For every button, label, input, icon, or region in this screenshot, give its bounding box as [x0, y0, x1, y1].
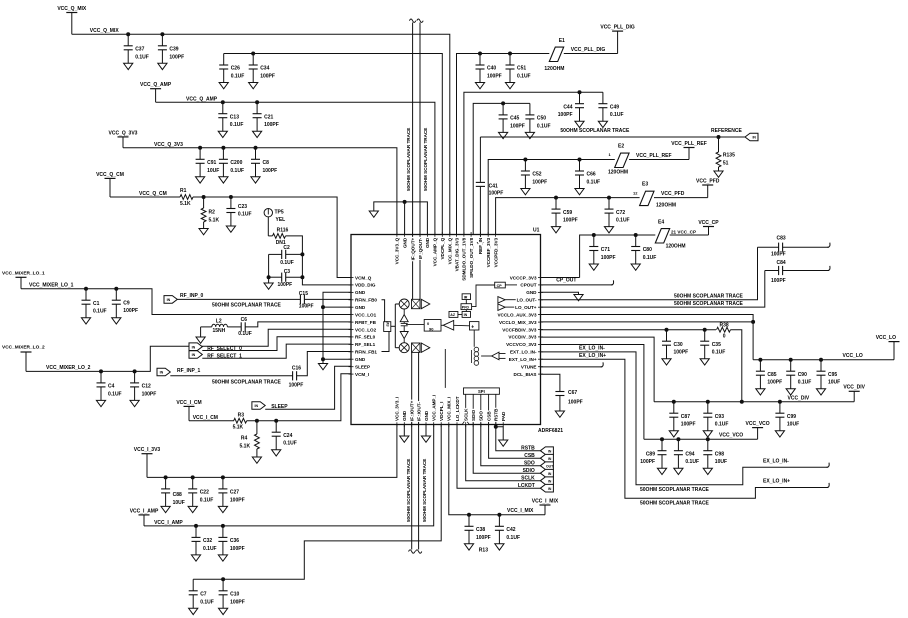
- svg-text:C32: C32: [203, 538, 212, 544]
- svg-text:VCM_I: VCM_I: [355, 372, 369, 377]
- amplifier EXT_LO buffer: [492, 352, 499, 360]
- svg-text:120OHM: 120OHM: [666, 243, 686, 249]
- svg-text:0.1UF: 0.1UF: [537, 123, 551, 129]
- box IR: [462, 294, 470, 300]
- svg-text:0.1UF: 0.1UF: [685, 459, 699, 465]
- wire top GND pins jog to ground: [404, 202, 406, 235]
- svg-text:100PF: 100PF: [510, 123, 525, 129]
- wire TP5 to R116: [267, 217, 269, 236]
- input port RF_SELECT_0: [189, 343, 202, 351]
- capacitor C1: [84, 287, 88, 291]
- svg-text:10UF: 10UF: [715, 459, 727, 465]
- svg-text:C34: C34: [260, 66, 269, 72]
- svg-text:C200: C200: [230, 160, 242, 166]
- amplifier LO buffer: [443, 321, 454, 331]
- capacitor C85: [758, 358, 762, 362]
- svg-text:0.1UF: 0.1UF: [203, 546, 217, 552]
- svg-text:IN: IN: [160, 371, 164, 375]
- svg-text:100PF: 100PF: [558, 112, 573, 118]
- svg-text:50OHM SCOPLANAR TRACE: 50OHM SCOPLANAR TRACE: [674, 301, 744, 307]
- svg-text:10UF: 10UF: [173, 500, 185, 506]
- svg-text:C35: C35: [712, 342, 721, 348]
- svg-text:VCC_DIV: VCC_DIV: [788, 396, 810, 402]
- svg-text:VDD_DIG: VDD_DIG: [355, 283, 376, 288]
- svg-text:100PF: 100PF: [674, 350, 689, 356]
- svg-text:VCC_PFD: VCC_PFD: [661, 191, 685, 197]
- svg-text:0.1UF: 0.1UF: [108, 391, 122, 397]
- svg-text:C24: C24: [283, 433, 292, 439]
- box AZ: [449, 312, 458, 318]
- svg-text:0: 0: [723, 333, 726, 339]
- capacitor C41 (series, vertical): [476, 181, 485, 183]
- resistor R2 pulldown: [202, 195, 206, 199]
- LO phase chain between mixers: [403, 309, 405, 315]
- svg-text:VCC_I_MIX: VCC_I_MIX: [507, 508, 534, 514]
- svg-text:5.1K: 5.1K: [209, 217, 220, 223]
- svg-text:VCC_MIXER_LO_2: VCC_MIXER_LO_2: [2, 344, 45, 350]
- svg-text:LO_LCKDT: LO_LCKDT: [455, 396, 460, 421]
- power flag VCC_I_3V3: [142, 453, 153, 455]
- svg-text:CP_OUT: CP_OUT: [556, 277, 576, 283]
- svg-text:50OHM SCOPLANAR TRACE: 50OHM SCOPLANAR TRACE: [423, 128, 428, 191]
- input port RF_INP_1: [157, 368, 170, 376]
- svg-text:E2: E2: [618, 143, 624, 149]
- svg-text:0.1UF: 0.1UF: [238, 331, 252, 337]
- svg-text:120OHM: 120OHM: [656, 203, 676, 209]
- wire CP to CPOUT pin: [505, 284, 517, 286]
- capacitor C35: [703, 328, 707, 332]
- wire VCC_I_CM flag stem: [188, 406, 190, 420]
- ground for C3: [264, 283, 273, 289]
- wire GND pin stub y307: [323, 306, 351, 308]
- ground for left GND pins: [318, 364, 327, 370]
- svg-text:SPI: SPI: [478, 389, 485, 394]
- svg-text:50OHM SCOPLANAR TRACE: 50OHM SCOPLANAR TRACE: [560, 128, 630, 134]
- svg-text:C38: C38: [476, 527, 485, 533]
- resistor R1: [180, 195, 193, 200]
- capacitor C71: [592, 233, 596, 237]
- svg-text:EX_LO_IN-: EX_LO_IN-: [763, 459, 789, 465]
- svg-text:C39: C39: [169, 47, 178, 53]
- svg-text:VCC_MIXER_LO_1: VCC_MIXER_LO_1: [29, 283, 74, 289]
- wire PFD to CP: [472, 285, 495, 307]
- svg-text:100PF: 100PF: [230, 599, 245, 605]
- wire PAD to ground: [496, 427, 503, 440]
- svg-text:VCC_PLL_DIG: VCC_PLL_DIG: [600, 25, 635, 31]
- wire C2 left leg down to C3/ground: [268, 254, 270, 283]
- svg-text:0.1UF: 0.1UF: [616, 218, 630, 224]
- wire RFIN_FB0 to SW: [382, 300, 385, 322]
- svg-text:SCLK: SCLK: [464, 408, 469, 421]
- resistor R135: [718, 137, 720, 152]
- svg-text:10UF: 10UF: [828, 380, 840, 386]
- svg-text:C50: C50: [537, 116, 546, 122]
- svg-text:VCCDIV_3V3: VCCDIV_3V3: [508, 335, 537, 340]
- svg-text:50OHM SCOPLANAR TRACE: 50OHM SCOPLANAR TRACE: [212, 302, 282, 308]
- svg-text:LO_OUT-: LO_OUT-: [517, 298, 537, 303]
- svg-text:YEL: YEL: [276, 217, 286, 223]
- svg-text:IN: IN: [752, 136, 756, 140]
- svg-text:VCCLO_AUX_3V3: VCCLO_AUX_3V3: [497, 312, 537, 317]
- capacitor C22: [191, 475, 195, 479]
- svg-text:0.1UF: 0.1UF: [283, 441, 297, 447]
- wire R1 to VCM_Q pin: [193, 197, 351, 278]
- svg-text:VCC_MIX_Q: VCC_MIX_Q: [448, 237, 453, 264]
- capacitor C93: [706, 400, 710, 404]
- svg-text:SDIO: SDIO: [471, 409, 476, 421]
- svg-text:C49: C49: [610, 104, 619, 110]
- wire EXT_LO_IN+ trace: [541, 359, 829, 498]
- svg-text:VCC_Q_MIX: VCC_Q_MIX: [90, 28, 120, 34]
- capacitor C84 (series): [765, 270, 779, 272]
- capacitor C26: [223, 54, 225, 66]
- svg-text:C9: C9: [123, 300, 130, 306]
- capacitor C27: [221, 475, 225, 479]
- svg-text:100PF: 100PF: [264, 122, 279, 128]
- svg-text:C13: C13: [230, 114, 239, 120]
- wire IF_QOUT- 50ohm trace: [419, 23, 421, 300]
- wire RSTB to pentagon: [496, 425, 541, 451]
- svg-text:SPILDO_OUT_1V8: SPILDO_OUT_1V8: [469, 237, 474, 278]
- svg-text:CPOUT: CPOUT: [520, 283, 536, 288]
- svg-text:100PF: 100PF: [230, 497, 245, 503]
- capacitor C99: [778, 400, 782, 404]
- capacitor C90: [789, 358, 793, 362]
- svg-text:GND: GND: [424, 410, 429, 421]
- svg-text:100PF: 100PF: [771, 251, 786, 257]
- wire VCC_I_3V3 bus to VCC_3V3_I pin: [147, 425, 397, 478]
- capacitor C44: [578, 90, 582, 94]
- svg-text:VCCREF_3V3: VCCREF_3V3: [486, 237, 491, 267]
- svg-text:R2: R2: [209, 210, 216, 216]
- svg-text:SDMLDO_OUT_1V8: SDMLDO_OUT_1V8: [462, 237, 467, 280]
- svg-text:10UF: 10UF: [207, 168, 219, 174]
- svg-text:IF_QOUT+: IF_QOUT+: [410, 237, 415, 260]
- svg-text:C67: C67: [568, 390, 577, 396]
- svg-text:100PF: 100PF: [489, 191, 504, 197]
- svg-text:IN: IN: [548, 479, 552, 483]
- svg-text:AZ: AZ: [450, 313, 456, 317]
- ground for PAD: [499, 440, 508, 446]
- capacitor C21: [255, 100, 259, 104]
- svg-text:VCC_MIX_I: VCC_MIX_I: [447, 397, 452, 421]
- VCO varactor stack: [473, 330, 475, 347]
- svg-text:C88: C88: [173, 492, 182, 498]
- wire RF_SELECT_1 to RF_SEL1 pin: [202, 344, 351, 358]
- wire VCC_MIXER_LO_2 bus to VCC_LO2 pin: [26, 329, 351, 371]
- wire VCCFBDIV_3V3 to R38: [541, 329, 717, 331]
- svg-text:RFIN_FB1: RFIN_FB1: [355, 350, 377, 355]
- resistor R116 (DN1): [268, 235, 272, 237]
- svg-text:VCC_MIXER_LO_2: VCC_MIXER_LO_2: [46, 365, 91, 371]
- wire quad section to SPI: [444, 349, 446, 388]
- svg-text:C85: C85: [767, 372, 776, 378]
- svg-text:5.1K: 5.1K: [240, 443, 251, 449]
- svg-text:0.1UF: 0.1UF: [715, 422, 729, 428]
- ground for top GND pins: [369, 211, 378, 217]
- wire VCCPFD_3V3 / E3 bus: [496, 198, 640, 235]
- capacitor C4: [99, 369, 103, 373]
- svg-text:50OHM SCOPLANAR TRACE: 50OHM SCOPLANAR TRACE: [640, 487, 710, 493]
- wire VCCVCO_3V3 to VCC_VCO bus: [541, 345, 644, 440]
- svg-text:EX_LO_IN-: EX_LO_IN-: [579, 345, 605, 351]
- power flag VCC_Q_3V3: [118, 136, 129, 138]
- svg-text:C3: C3: [284, 269, 291, 275]
- svg-text:C98: C98: [715, 451, 724, 457]
- svg-text:100PF: 100PF: [767, 380, 782, 386]
- svg-text:0.1UF: 0.1UF: [200, 599, 214, 605]
- svg-text:C87: C87: [681, 414, 690, 420]
- capacitor C42: [497, 513, 501, 517]
- capacitor C12: [133, 369, 137, 373]
- svg-text:C91: C91: [207, 160, 216, 166]
- svg-text:EXT_LO_IN+: EXT_LO_IN+: [509, 357, 537, 362]
- svg-text:VTUNE: VTUNE: [521, 365, 537, 370]
- capacitor C94: [676, 437, 680, 441]
- svg-text:C37: C37: [135, 47, 144, 53]
- svg-text:0.1UF: 0.1UF: [280, 260, 294, 266]
- svg-text:0.1UF: 0.1UF: [230, 168, 244, 174]
- svg-text:50OHM SCOPLANAR TRACE: 50OHM SCOPLANAR TRACE: [640, 501, 710, 507]
- svg-text:100PF: 100PF: [476, 535, 491, 541]
- svg-text:VCC_PLL_DIG: VCC_PLL_DIG: [571, 47, 606, 53]
- svg-text:120OHM: 120OHM: [608, 169, 628, 175]
- filter box I: [412, 343, 421, 352]
- wire E1 to VCC_PLL_DIG flag: [564, 53, 618, 55]
- svg-text:100PF: 100PF: [263, 168, 278, 174]
- svg-text:C80: C80: [643, 247, 652, 253]
- power flag VCC_I_AMP: [139, 514, 150, 516]
- svg-text:IN: IN: [548, 472, 552, 476]
- svg-text:C41: C41: [489, 183, 498, 189]
- power flag VCC_Q_CM: [105, 177, 116, 179]
- amplifier LO_OUT+ buffer: [498, 304, 505, 310]
- svg-text:C22: C22: [200, 490, 209, 496]
- capacitor C24: [274, 419, 278, 423]
- svg-text:VCC_3V3_I: VCC_3V3_I: [395, 397, 400, 421]
- wire IF_IOUT- 50ohm trace: [418, 353, 420, 550]
- input port RF_SELECT_1: [189, 351, 202, 359]
- svg-text:VCC_Q_AMP: VCC_Q_AMP: [186, 96, 218, 102]
- wire VCC_Q_CM bus to R1: [110, 196, 180, 198]
- capacitor C8: [254, 146, 258, 150]
- capacitor C36: [221, 524, 225, 528]
- wire E2 to VCC_PLL_REF flag: [629, 159, 689, 161]
- svg-text:GND: GND: [402, 410, 407, 421]
- svg-text:C2: C2: [283, 245, 290, 251]
- capacitor C39: [160, 32, 164, 36]
- power flag VCC_PLL_REF: [684, 147, 695, 149]
- wire RF_INP_0 to C15: [177, 298, 300, 300]
- svg-text:C1: C1: [93, 301, 100, 307]
- capacitor C34: [251, 52, 255, 56]
- svg-text:100PF: 100PF: [142, 391, 157, 397]
- svg-text:100PF: 100PF: [532, 180, 547, 186]
- svg-text:VCC_I_3V3: VCC_I_3V3: [134, 447, 161, 453]
- svg-text:IN: IN: [192, 353, 196, 357]
- svg-text:0.1UF: 0.1UF: [643, 255, 657, 261]
- svg-text:C99: C99: [787, 414, 796, 420]
- svg-text:CSB: CSB: [486, 411, 491, 421]
- svg-text:0.1UF: 0.1UF: [712, 350, 726, 356]
- svg-text:C71: C71: [601, 247, 610, 253]
- wire VCCLO_MIX_3V3 to VCC_LO bus: [541, 322, 754, 360]
- svg-text:0.1UF: 0.1UF: [587, 180, 601, 186]
- svg-text:C42: C42: [506, 527, 515, 533]
- resistor R3: [234, 418, 247, 423]
- filter box Q: [412, 299, 421, 308]
- svg-text:VCCFBDIV_3V3: VCCFBDIV_3V3: [502, 327, 537, 332]
- svg-text:5.1K: 5.1K: [180, 201, 191, 207]
- svg-text:0.1UF: 0.1UF: [135, 54, 149, 60]
- svg-text:VCC_I_AMP: VCC_I_AMP: [154, 520, 183, 526]
- wire VCC_I_3V3 flag stem: [146, 454, 148, 478]
- wire C26/C34 bus (VDCPL_Q): [224, 54, 443, 235]
- wire C6 to RFBT_FB pin: [245, 322, 351, 327]
- svg-text:VCC_Q_3V3: VCC_Q_3V3: [109, 130, 138, 136]
- wire CSB to pentagon: [489, 425, 541, 459]
- svg-text:IF_QOUT-: IF_QOUT-: [418, 237, 423, 259]
- amplifier I: [421, 343, 430, 352]
- svg-text:C51: C51: [517, 66, 526, 72]
- wire VCC_MIXER_LO_1 flag stem: [20, 277, 22, 288]
- svg-text:VCM_Q: VCM_Q: [355, 275, 372, 280]
- svg-text:100PF: 100PF: [771, 278, 786, 284]
- wire VBAT_DIG_3V3 / E1 bus: [457, 54, 550, 235]
- wire SPILDO_OUT_1V8 bus: [473, 103, 530, 234]
- divider box N: [470, 322, 479, 330]
- capacitor C45: [501, 101, 505, 105]
- svg-text:VCC_VCO: VCC_VCO: [746, 421, 770, 427]
- svg-text:IN: IN: [167, 298, 171, 302]
- svg-text:C36: C36: [230, 538, 239, 544]
- svg-text:50OHM SCOPLANAR TRACE: 50OHM SCOPLANAR TRACE: [406, 459, 411, 522]
- svg-text:VDCPL_Q: VDCPL_Q: [440, 237, 445, 259]
- svg-text:100PF: 100PF: [278, 282, 293, 288]
- wire VCC_I_AMP flag stem: [143, 515, 145, 526]
- ground for R4: [252, 457, 261, 463]
- svg-text:C26: C26: [231, 66, 240, 72]
- capacitor C32: [194, 524, 198, 528]
- svg-text:LCKDT: LCKDT: [518, 483, 535, 489]
- wire VCCLO_AUX_3V3 to VCC_LO bus: [541, 315, 754, 322]
- wire VCC_MIXER_LO_1 bus to VCC_LO1 pin: [21, 289, 351, 315]
- svg-text:VCC_AMP_Q: VCC_AMP_Q: [433, 237, 438, 266]
- svg-text:CSB: CSB: [524, 453, 535, 459]
- svg-text:EX_LO_IN+: EX_LO_IN+: [763, 479, 790, 485]
- svg-text:C84: C84: [777, 260, 786, 266]
- ground for R135: [714, 171, 723, 177]
- svg-text:0.1UF: 0.1UF: [517, 74, 531, 80]
- mixer Q (circle-X): [399, 299, 409, 309]
- svg-text:0.1UF: 0.1UF: [93, 309, 107, 315]
- svg-text:TP5: TP5: [275, 210, 284, 216]
- svg-text:12: 12: [633, 191, 638, 196]
- capacitor C49: [602, 92, 604, 104]
- wire IF_QOUT+ 50ohm trace: [412, 23, 414, 300]
- svg-text:REFERENCE: REFERENCE: [711, 128, 743, 134]
- svg-text:IN: IN: [548, 487, 552, 491]
- capacitor C87: [672, 400, 676, 404]
- mixer I (circle-X): [399, 343, 409, 353]
- svg-text:+: +: [471, 325, 474, 331]
- svg-text:RF_INP_0: RF_INP_0: [180, 293, 204, 299]
- svg-text:RFIN_FB0: RFIN_FB0: [355, 298, 377, 303]
- ferrite bead E2: [615, 153, 629, 167]
- svg-text:VCC_VCO: VCC_VCO: [719, 433, 743, 439]
- svg-text:RF_SELECT_0: RF_SELECT_0: [207, 346, 242, 352]
- svg-text:0.1UF: 0.1UF: [506, 535, 520, 541]
- svg-text:VCC_LO1: VCC_LO1: [355, 312, 377, 317]
- box PFD: [461, 304, 472, 310]
- capacitor C89: [660, 437, 664, 441]
- svg-text:RSTB: RSTB: [494, 408, 499, 421]
- svg-text:VCCLO_MIX_3V3: VCCLO_MIX_3V3: [499, 320, 537, 325]
- svg-text:15NH: 15NH: [213, 328, 226, 334]
- wire R3 to VCM_I pin: [247, 374, 351, 421]
- capacitor C9: [114, 287, 118, 291]
- capacitor C51: [508, 52, 512, 56]
- svg-text:U1: U1: [533, 228, 540, 234]
- power flag VCC_Q_MIX: [66, 12, 77, 14]
- wire right GND pin to ground: [541, 292, 579, 294]
- svg-text:10UF: 10UF: [787, 422, 799, 428]
- svg-text:VCC_LO2: VCC_LO2: [355, 327, 377, 332]
- amplifier Q: [421, 299, 430, 308]
- capacitor C91: [198, 146, 202, 150]
- power flag VCC_LO: [889, 341, 900, 343]
- svg-text:100PF: 100PF: [260, 74, 275, 80]
- svg-text:VCC_3V3_Q: VCC_3V3_Q: [395, 237, 400, 264]
- svg-text:C12: C12: [142, 384, 151, 390]
- svg-text:C21: C21: [264, 114, 273, 120]
- svg-text:VDCPL_I: VDCPL_I: [439, 402, 444, 421]
- wire LO_OUT- to C83: [541, 247, 758, 300]
- svg-text:VBAT_DIG_3V3: VBAT_DIG_3V3: [454, 237, 459, 271]
- wire VCC_LO bus: [753, 359, 894, 361]
- power flag VCC_PFD: [702, 184, 713, 186]
- svg-text:C30: C30: [674, 342, 683, 348]
- svg-text:C4: C4: [108, 384, 115, 390]
- wire E3 to VCC_PFD flag: [654, 197, 708, 199]
- svg-text:C93: C93: [715, 414, 724, 420]
- wire VCCDIV_3V3 to VCC_DIV bus: [541, 337, 655, 402]
- svg-text:C95: C95: [828, 372, 837, 378]
- svg-text:VCC_I_AMP: VCC_I_AMP: [130, 508, 159, 514]
- svg-text:RF_SEL1: RF_SEL1: [355, 342, 376, 347]
- wire VCO to EXT buffer: [481, 355, 492, 357]
- wire VCC_I_CM bus to R3: [189, 420, 234, 422]
- power flag VCC_I_CM: [184, 405, 195, 407]
- svg-text:C90: C90: [798, 372, 807, 378]
- capacitor C80: [634, 233, 638, 237]
- svg-text:IN: IN: [255, 404, 259, 408]
- svg-text:C6: C6: [241, 317, 248, 323]
- svg-text:VCC_I_CM: VCC_I_CM: [176, 400, 201, 406]
- wire E4 to VCC_CP flag: [670, 234, 709, 236]
- wire REF_IN vertical: [479, 137, 481, 182]
- svg-text:C52: C52: [532, 172, 541, 178]
- svg-text:VCC_PFD: VCC_PFD: [696, 178, 720, 184]
- wire VCC_I_AMP bus to VCC_AMP_I pin: [144, 425, 434, 526]
- svg-text:VCC_I_MIX: VCC_I_MIX: [532, 498, 559, 504]
- wire VCC_VCO bus: [644, 438, 758, 440]
- svg-text:SLEEP: SLEEP: [355, 365, 370, 370]
- svg-text:VCC_Q_CM: VCC_Q_CM: [139, 191, 167, 197]
- svg-text:E1: E1: [559, 38, 565, 44]
- svg-text:0.1UF: 0.1UF: [231, 74, 245, 80]
- capacitor C98: [706, 437, 710, 441]
